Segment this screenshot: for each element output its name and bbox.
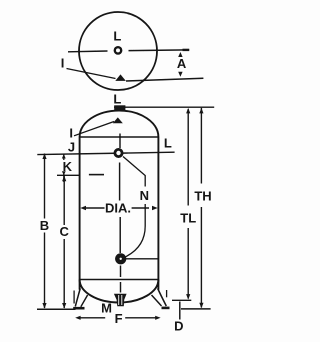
svg-text:C: C bbox=[60, 224, 70, 239]
svg-text:L: L bbox=[164, 136, 172, 151]
svg-text:F: F bbox=[115, 311, 123, 326]
svg-text:DIA.: DIA. bbox=[105, 200, 131, 215]
svg-text:TH: TH bbox=[194, 188, 211, 203]
svg-text:M: M bbox=[101, 301, 112, 316]
svg-text:B: B bbox=[40, 218, 49, 233]
svg-text:TL: TL bbox=[180, 210, 196, 225]
svg-text:L: L bbox=[113, 29, 121, 44]
svg-text:I: I bbox=[61, 55, 65, 70]
svg-text:J: J bbox=[68, 139, 75, 154]
svg-text:D: D bbox=[174, 319, 183, 334]
svg-text:I: I bbox=[69, 125, 73, 140]
svg-text:L: L bbox=[113, 91, 121, 106]
svg-text:N: N bbox=[140, 188, 149, 203]
svg-text:A: A bbox=[177, 56, 187, 71]
svg-text:K: K bbox=[63, 159, 73, 174]
